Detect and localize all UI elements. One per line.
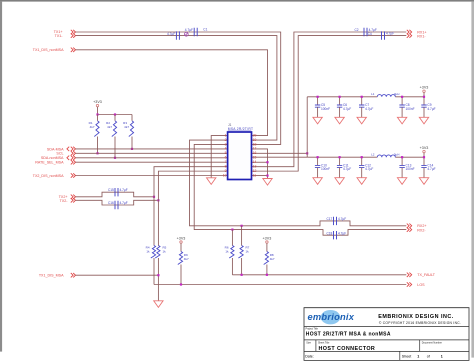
capacitor C12 (357, 156, 373, 184)
power +3V3 bank2 (420, 146, 429, 157)
resistor R3 (123, 115, 133, 149)
svg-text:C16: C16 (108, 201, 114, 205)
svg-text:4: 4 (225, 147, 227, 151)
pin numbers J1 (223, 133, 257, 177)
capacitor C1 (185, 28, 208, 37)
svg-text:1k: 1k (246, 249, 250, 253)
svg-text:C17: C17 (326, 217, 332, 221)
wire pin17 ground vertical (252, 149, 268, 179)
page right edge band (471, 2, 474, 358)
junction pin11-gnd (266, 174, 268, 176)
ground R5 (154, 301, 163, 308)
capacitor C8 (397, 96, 414, 124)
port TX1_DIS_nonMSA (33, 48, 76, 53)
svg-text:SDA-nonMSA: SDA-nonMSA (41, 156, 64, 160)
junction R9-LOS (180, 283, 182, 285)
svg-text:Size: Size (306, 341, 311, 344)
svg-text:17: 17 (253, 147, 257, 151)
port RX2+ (407, 224, 427, 229)
port TX2_DIS_nonMSA (33, 173, 76, 178)
junction R7-TXFAULT (241, 274, 243, 276)
svg-text:3: 3 (225, 142, 227, 146)
svg-text:4.7µF: 4.7µF (343, 167, 351, 171)
port RATE_SEL_MSA (35, 160, 75, 165)
capacitor C9 (419, 96, 435, 124)
svg-text:9: 9 (225, 169, 227, 173)
svg-text:4.7µF: 4.7µF (427, 167, 435, 171)
svg-text:2: 2 (225, 138, 227, 142)
label sheet title (318, 341, 330, 344)
svg-text:RX1-: RX1- (417, 34, 426, 38)
capacitor C5 (313, 96, 330, 124)
wire pullup rail (98, 114, 133, 116)
svg-text:C1: C1 (203, 28, 207, 32)
capacitor C14 (419, 156, 435, 184)
connector J1 (228, 123, 254, 179)
resistor R8 (264, 252, 275, 275)
port TX1+ (54, 30, 76, 34)
capacitor C10 (313, 156, 330, 184)
label date (305, 355, 314, 359)
svg-text:100nF: 100nF (406, 107, 415, 111)
svg-text:SDA-MSA: SDA-MSA (47, 147, 64, 151)
svg-text:C4: C4 (368, 32, 372, 36)
capacitor C16 (108, 201, 128, 209)
svg-text:C15: C15 (108, 188, 114, 192)
resistor R5 (155, 200, 166, 300)
svg-text:1: 1 (417, 355, 419, 359)
svg-text:4.7µF: 4.7µF (343, 107, 351, 111)
wire RX2- net (194, 144, 406, 235)
svg-text:1: 1 (225, 133, 227, 137)
port TX_FAULT (407, 273, 436, 278)
wire bank1 rail (307, 96, 424, 98)
svg-text:Sheet Title: Sheet Title (318, 341, 330, 344)
svg-text:100nF: 100nF (321, 167, 330, 171)
junction pin16-railvert (306, 152, 308, 154)
junction R3-SDA (131, 148, 133, 150)
sheet title (319, 346, 376, 352)
wire TX2_DIS_nonMSA net (76, 175, 228, 177)
svg-text:1k: 1k (146, 249, 150, 253)
svg-text:MSA 2R/2T/RT: MSA 2R/2T/RT (228, 127, 253, 131)
wire pin15 to rail2 (252, 156, 308, 158)
svg-text:13: 13 (253, 164, 257, 168)
junction R2-SDAnon (114, 157, 116, 159)
port TX2- (60, 198, 76, 203)
svg-text:4k7: 4k7 (184, 257, 189, 261)
resistor R9 (178, 252, 189, 285)
svg-text:TX2_DIS_nonMSA: TX2_DIS_nonMSA (33, 174, 64, 178)
junction R8-TXFAULT (266, 274, 268, 276)
svg-text:12: 12 (253, 169, 257, 173)
junction TX1_DIS_MSA-R5 (157, 274, 159, 276)
svg-text:4.7µF: 4.7µF (167, 32, 175, 36)
port TX1_DIS_MSA (39, 273, 76, 278)
svg-text:5: 5 (225, 151, 227, 155)
svg-text:4.7µF: 4.7µF (386, 32, 394, 36)
junction rail R2 (114, 113, 116, 115)
capacitor C15 (108, 188, 128, 196)
port RX1+ (407, 30, 427, 35)
capacitor C7 (357, 96, 373, 124)
capacitor C13 (397, 156, 414, 184)
label size (306, 341, 311, 344)
svg-text:20: 20 (253, 133, 257, 137)
wire TX1_DIS_MSA net (76, 274, 159, 276)
label document number (422, 341, 442, 344)
svg-text:1k: 1k (163, 249, 167, 253)
wire pin16 to rail (252, 152, 308, 154)
capacitor C11 (335, 156, 351, 184)
resistor R1 (89, 115, 99, 154)
wire pin9 TX2- net (158, 171, 227, 200)
company name (378, 314, 454, 320)
wire LOS net (154, 284, 406, 286)
svg-text:18: 18 (253, 142, 257, 146)
svg-text:C18: C18 (326, 232, 332, 236)
power +3V3 R9 (177, 236, 186, 251)
svg-text:4k7: 4k7 (270, 257, 275, 261)
junction R1-SCL (96, 152, 98, 154)
wire TX1- net (76, 36, 277, 140)
svg-text:16: 16 (253, 151, 257, 155)
wire RX2+ net (190, 140, 407, 226)
no-connect marker (184, 32, 188, 36)
svg-text:1: 1 (441, 355, 443, 359)
svg-text:TX1_DIS_MSA: TX1_DIS_MSA (39, 274, 64, 278)
svg-text:+3V3: +3V3 (420, 146, 429, 150)
project title (306, 332, 391, 338)
port SDA-nonMSA (41, 156, 76, 161)
svg-text:HOST 2R/2T/RT MSA & nonMSA: HOST 2R/2T/RT MSA & nonMSA (306, 332, 391, 338)
junction R6-RX2- (231, 229, 233, 231)
svg-text:1k: 1k (225, 249, 229, 253)
svg-text:4.7µF: 4.7µF (365, 107, 373, 111)
capacitor C2 (355, 28, 377, 36)
wire pin8 TX2+ net (154, 167, 228, 197)
power +3V3 pullups (93, 100, 102, 115)
port LOS (407, 282, 425, 287)
svg-text:15: 15 (253, 156, 257, 160)
wire SDA-nonMSA net (76, 157, 228, 159)
sheet of (402, 355, 443, 359)
wire TX2- net (76, 200, 159, 205)
svg-text:100nF: 100nF (321, 107, 330, 111)
svg-text:10: 10 (223, 173, 227, 177)
title block frame (304, 308, 469, 361)
wire SCL net (76, 152, 228, 154)
svg-text:LOS: LOS (417, 283, 425, 287)
port SDA-MSA (47, 147, 76, 152)
svg-text:embrionix: embrionix (308, 312, 355, 322)
power +3V3 bank1 (420, 86, 429, 97)
svg-text:RX2-: RX2- (417, 229, 426, 233)
svg-text:TX1_DIS_nonMSA: TX1_DIS_nonMSA (33, 48, 64, 52)
capacitor C17 (326, 217, 346, 225)
svg-text:4.7µF: 4.7µF (427, 107, 435, 111)
svg-text:of: of (427, 355, 430, 359)
capacitor C18 (326, 231, 346, 239)
svg-text:EMBRIONIX DESIGN INC.: EMBRIONIX DESIGN INC. (378, 314, 454, 320)
capacitor C3 (167, 31, 179, 39)
wire pin14 stub (252, 161, 268, 163)
svg-text:6: 6 (225, 156, 227, 160)
resistor R7 (238, 226, 249, 275)
power +3V3 R8 (263, 236, 272, 251)
wire inter-rail vertical (306, 97, 308, 157)
junction R7-RX2+ (241, 225, 243, 227)
resistor R6 (225, 230, 234, 275)
inductor L2 (371, 153, 399, 158)
svg-text:Document Number: Document Number (422, 341, 442, 344)
copyright (379, 321, 461, 325)
port SCL (56, 151, 75, 156)
svg-text:4k7: 4k7 (124, 125, 129, 129)
inductor L1 (371, 92, 399, 97)
svg-text:TX2-: TX2- (60, 199, 69, 203)
svg-text:3µH: 3µH (394, 92, 400, 96)
svg-text:4.7µF: 4.7µF (365, 167, 373, 171)
svg-text:4.7µF: 4.7µF (338, 217, 346, 221)
wire pin11 stub (252, 175, 268, 177)
svg-text:HOST CONNECTOR: HOST CONNECTOR (319, 346, 376, 352)
svg-text:+3V3: +3V3 (93, 100, 102, 104)
wire RX1+ net (252, 32, 407, 167)
svg-text:100nF: 100nF (406, 167, 415, 171)
page top edge shadow (0, 0, 474, 2)
svg-text:C2: C2 (355, 28, 359, 32)
wire bank2 rail (307, 156, 424, 158)
wire TX1_DIS_nonMSA net (76, 50, 268, 136)
svg-text:Date:: Date: (305, 355, 314, 359)
port TX2+ (59, 195, 76, 200)
svg-text:3µH: 3µH (394, 153, 400, 157)
wire RX1- net (252, 36, 407, 172)
svg-text:L1: L1 (371, 92, 375, 96)
ground pin1 (207, 178, 216, 185)
junction TX2+ (153, 196, 155, 198)
svg-text:TX1-: TX1- (55, 34, 64, 38)
svg-text:RATE_SEL_MSA: RATE_SEL_MSA (35, 161, 64, 165)
svg-text:4.7µF: 4.7µF (120, 201, 128, 205)
svg-text:4.7µF: 4.7µF (185, 28, 193, 32)
svg-text:RX2+: RX2+ (417, 224, 426, 228)
junction TX2- (157, 199, 159, 201)
svg-text:+3V3: +3V3 (420, 86, 429, 90)
svg-text:4.7µF: 4.7µF (338, 232, 346, 236)
resistor R4 (146, 197, 156, 285)
logo embrionix (308, 310, 355, 324)
svg-text:11: 11 (253, 173, 257, 177)
svg-text:19: 19 (253, 138, 257, 142)
port TX1- (55, 33, 76, 38)
capacitor C4 (368, 31, 395, 39)
svg-text:L2: L2 (371, 153, 375, 157)
resistor R2 (106, 115, 116, 158)
svg-text:14: 14 (253, 160, 257, 164)
svg-text:4k7: 4k7 (90, 125, 95, 129)
svg-text:© COPYRIGHT 2016 EMBRIONIX DES: © COPYRIGHT 2016 EMBRIONIX DESIGN INC. (379, 321, 461, 325)
wire SDA-MSA net (76, 148, 228, 150)
svg-text:+3V3: +3V3 (177, 236, 186, 240)
wire TX1+ net (76, 32, 281, 144)
ground pin17 (263, 179, 272, 186)
label project title (306, 328, 319, 331)
wire TX_FAULT net (232, 274, 406, 276)
port RX1- (407, 33, 427, 38)
svg-text:+3V3: +3V3 (263, 236, 272, 240)
wire TX2+ net (76, 192, 155, 197)
svg-text:7: 7 (225, 160, 227, 164)
page left edge shadow (0, 2, 2, 352)
junction pin14-gnd (266, 161, 268, 163)
svg-text:8: 8 (225, 164, 227, 168)
wire RATE_SEL_MSA net (76, 161, 228, 163)
svg-text:SCL: SCL (56, 152, 63, 156)
svg-text:Project Title: Project Title (306, 328, 319, 331)
svg-text:TX_FAULT: TX_FAULT (417, 273, 436, 277)
port RX2- (407, 227, 427, 232)
svg-text:4k7: 4k7 (107, 125, 112, 129)
svg-text:4.7µF: 4.7µF (120, 188, 128, 192)
capacitor C6 (335, 96, 351, 124)
wire pin1 to ground (211, 136, 227, 178)
svg-text:Sheet: Sheet (402, 355, 411, 359)
junction rail R1 (96, 113, 98, 115)
